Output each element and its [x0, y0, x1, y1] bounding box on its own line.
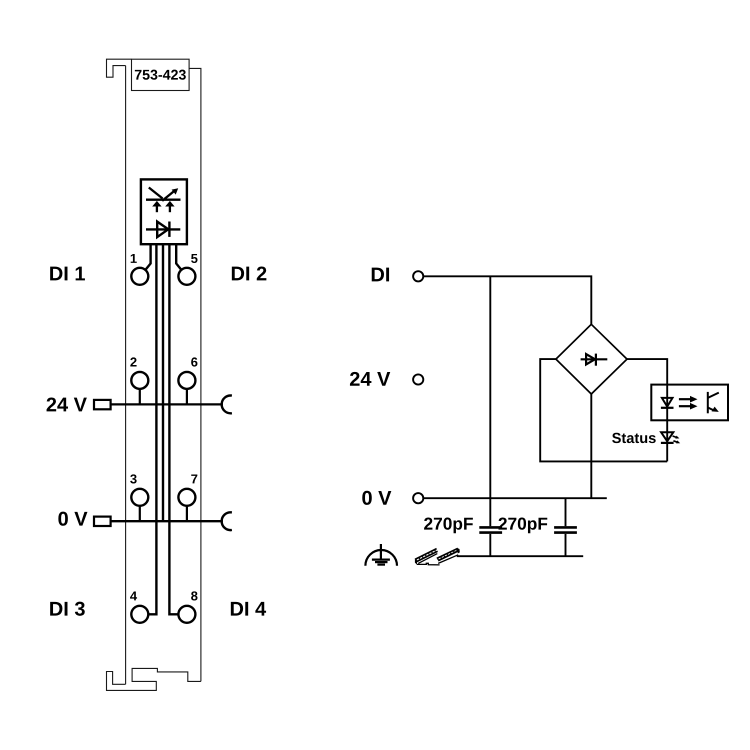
0V wire: [423, 497, 606, 499]
wire bridge bottom to 0V: [590, 394, 592, 498]
label 0 V (schematic): [362, 491, 391, 505]
status LED D2: [661, 432, 673, 441]
wire DI to capacitor C1: [489, 276, 491, 526]
wire loop left: [540, 359, 667, 461]
LED up-arrow head left: [152, 201, 161, 207]
clamp circle 8: [178, 606, 195, 623]
ground bus wire: [457, 555, 583, 557]
0V rail end arc: [222, 512, 232, 530]
module left edge: [125, 66, 127, 685]
0V square terminal: [94, 517, 111, 526]
label 0 V (module): [58, 512, 87, 526]
label 24 V (schematic): [350, 372, 390, 386]
clamp circle 5: [178, 268, 195, 285]
earth ground symbol: [365, 544, 397, 566]
pin number 1: [131, 254, 137, 263]
stem clamp 3: [139, 506, 141, 521]
LED arrowhead: [172, 188, 179, 194]
stem clamp 6: [186, 389, 188, 405]
module outline top notch: [107, 59, 132, 77]
opto phototransistor Q1: [708, 392, 719, 413]
label DI 2 (module): [232, 266, 267, 280]
internal wire W2 (to 0V rail): [162, 244, 164, 521]
wire 0V to C2: [565, 498, 567, 526]
label DI 4 (module): [231, 602, 266, 616]
optocoupler box U2: [651, 385, 728, 421]
pin number 6: [191, 357, 197, 366]
0V rail line: [111, 520, 223, 522]
24V terminal circle: [413, 374, 423, 384]
LED up-arrow head right: [165, 201, 174, 207]
clamp circle 1: [131, 268, 148, 285]
module bottom foot: [107, 668, 201, 690]
pin to clamp 1: [145, 244, 150, 270]
LED/diode box U1: [141, 179, 187, 244]
internal wire W1 (to clamp 4): [148, 244, 156, 614]
wire C2 to ground bus: [565, 534, 567, 556]
clamp circle 2: [131, 372, 148, 389]
bridge inner diode D1: [581, 354, 608, 366]
clamp circle 4: [131, 606, 148, 623]
label Status: [612, 433, 656, 443]
wire C1 to ground bus: [489, 534, 491, 556]
status LED emission arrow 2: [673, 441, 677, 443]
label 270pF (C2): [499, 518, 548, 534]
label DI 1 (module): [50, 267, 85, 281]
capacitor C2 270pF: [554, 526, 577, 529]
label DI (schematic): [372, 268, 389, 282]
module right edge: [189, 68, 201, 681]
pin number 4: [130, 591, 137, 600]
LED symbol (top): [146, 188, 181, 213]
clamp circle 7: [178, 489, 195, 506]
pin number 8: [191, 591, 197, 600]
bridge rectifier diamond: [556, 324, 627, 394]
diode symbol (bottom): [146, 222, 180, 238]
opto LED: [662, 398, 673, 407]
opto light arrow 1: [679, 398, 691, 400]
DI terminal circle: [413, 271, 423, 281]
wire through optocoupler and status LED: [666, 385, 668, 462]
24V rail end arc: [222, 396, 232, 414]
0V terminal circle: [413, 493, 423, 503]
status LED emission arrow 1: [673, 436, 677, 438]
capacitor C1 270pF: [479, 526, 502, 529]
label DI 3 (module): [50, 602, 85, 616]
stem clamp 7: [186, 506, 188, 521]
clamp circle 3: [131, 489, 148, 506]
pin number 3: [130, 474, 136, 483]
pin to clamp 5: [176, 244, 181, 270]
24V square terminal: [94, 400, 111, 409]
stem clamp 2: [139, 389, 141, 405]
pin number 7: [191, 474, 197, 483]
label 24 V (module): [47, 397, 87, 411]
opto light arrow 2: [679, 405, 691, 407]
pin number 5: [191, 254, 197, 263]
DI wire: [423, 276, 591, 324]
label 270pF (C1): [424, 518, 473, 534]
DIN rail icon: [415, 548, 459, 565]
pin number 2: [130, 357, 136, 366]
wire bridge right to optocoupler: [627, 359, 667, 385]
24V rail line: [111, 403, 223, 405]
internal wire W3 (to clamp 8): [169, 244, 178, 614]
label box 753-423: [132, 59, 190, 90]
clamp circle 6: [178, 372, 195, 389]
